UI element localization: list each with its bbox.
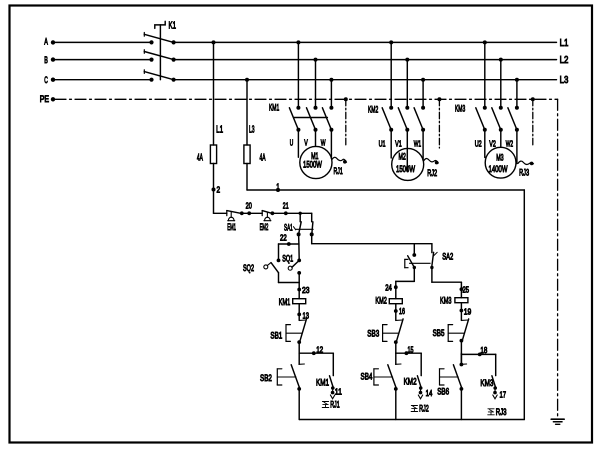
svg-text:RJ2: RJ2 [419, 404, 429, 414]
svg-text:RJ1: RJ1 [330, 400, 340, 410]
svg-text:SB1: SB1 [270, 330, 282, 340]
svg-text:PE: PE [40, 94, 49, 104]
svg-text:KM2: KM2 [375, 295, 387, 305]
svg-text:1500W: 1500W [303, 159, 322, 170]
svg-text:A: A [44, 36, 48, 46]
svg-text:SB5: SB5 [433, 328, 445, 338]
svg-text:RJ3: RJ3 [519, 167, 529, 177]
svg-text:C: C [44, 75, 48, 85]
svg-text:KM1: KM1 [279, 297, 291, 307]
svg-text:U1: U1 [379, 138, 386, 148]
svg-text:4A: 4A [260, 151, 266, 163]
svg-text:B: B [44, 55, 48, 65]
svg-text:M2: M2 [399, 151, 406, 161]
svg-text:KM1: KM1 [316, 377, 329, 387]
svg-text:23: 23 [302, 285, 310, 295]
svg-text:U: U [290, 137, 294, 147]
svg-text:SB4: SB4 [361, 372, 373, 382]
svg-text:1: 1 [276, 182, 280, 192]
svg-text:W: W [321, 137, 326, 147]
svg-text:12: 12 [316, 345, 323, 355]
svg-text:KM3: KM3 [480, 378, 493, 388]
svg-text:KM3: KM3 [455, 104, 465, 114]
svg-text:L3: L3 [249, 125, 255, 136]
svg-text:21: 21 [283, 200, 289, 210]
svg-text:RJ3: RJ3 [496, 407, 507, 417]
svg-text:25: 25 [463, 284, 470, 294]
svg-text:20: 20 [246, 200, 252, 210]
svg-text:17: 17 [500, 389, 507, 399]
svg-text:KM2: KM2 [404, 377, 417, 387]
svg-text:18: 18 [480, 345, 487, 355]
svg-text:L1: L1 [560, 38, 569, 49]
svg-text:22: 22 [280, 232, 287, 242]
svg-text:L1: L1 [216, 125, 223, 136]
svg-text:SQ1: SQ1 [282, 253, 293, 263]
svg-text:SA2: SA2 [442, 251, 453, 261]
svg-text:L2: L2 [560, 55, 569, 66]
svg-text:V1: V1 [395, 138, 402, 148]
svg-text:KM3: KM3 [440, 295, 452, 305]
svg-text:24: 24 [385, 283, 392, 293]
svg-text:U2: U2 [475, 138, 482, 148]
svg-text:RJ1: RJ1 [334, 166, 343, 176]
svg-text:4A: 4A [197, 151, 203, 163]
svg-text:RJ2: RJ2 [427, 168, 437, 178]
svg-text:SQ2: SQ2 [243, 263, 254, 273]
svg-text:EM1: EM1 [227, 222, 236, 232]
svg-text:SA1: SA1 [284, 223, 293, 233]
svg-text:16: 16 [399, 306, 405, 316]
svg-text:14: 14 [426, 388, 433, 398]
svg-text:V2: V2 [489, 138, 496, 148]
svg-text:1500W: 1500W [396, 164, 416, 175]
svg-text:11: 11 [335, 387, 342, 397]
svg-text:SB2: SB2 [260, 373, 272, 383]
svg-text:W2: W2 [506, 138, 513, 148]
svg-text:EM2: EM2 [260, 222, 269, 232]
svg-text:SB3: SB3 [367, 329, 379, 339]
svg-text:L3: L3 [560, 75, 569, 86]
svg-text:M3: M3 [496, 153, 503, 163]
svg-text:W1: W1 [414, 138, 421, 148]
svg-text:KM1: KM1 [269, 103, 279, 113]
svg-text:SB6: SB6 [437, 386, 449, 396]
svg-text:KM2: KM2 [368, 105, 378, 115]
svg-text:1400W: 1400W [489, 164, 509, 175]
svg-text:V: V [304, 137, 308, 147]
svg-text:K1: K1 [169, 20, 177, 31]
svg-text:2: 2 [217, 184, 221, 194]
svg-text:19: 19 [464, 307, 472, 317]
svg-text:15: 15 [408, 344, 414, 354]
